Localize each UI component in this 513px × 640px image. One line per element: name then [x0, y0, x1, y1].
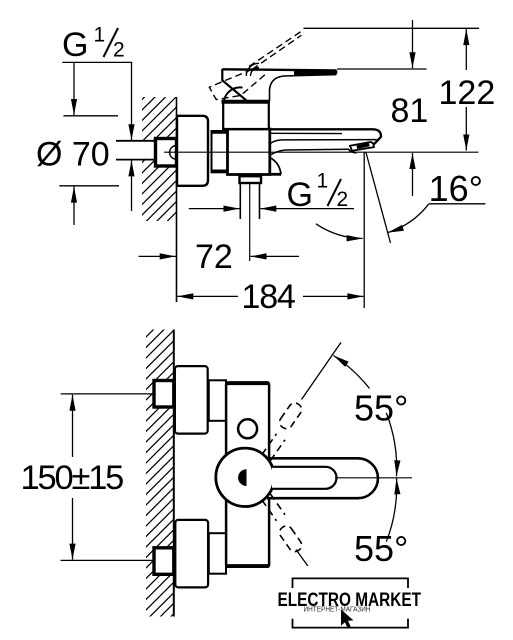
55deg slant line lower: [296, 550, 341, 613]
lever heel arcs: [246, 63, 259, 76]
dashed lever -55 (lower): [262, 494, 304, 554]
lower union nut (front): [154, 548, 174, 575]
logo top bracket: [293, 578, 409, 588]
spout aerator tip: [349, 142, 374, 153]
svg-text:122: 122: [439, 74, 496, 112]
svg-text:72: 72: [195, 238, 233, 276]
knob center dark mark: [238, 469, 246, 486]
dim 150±15: [21, 394, 155, 561]
wall face line (top view): [176, 97, 178, 302]
temperature ring (small circle): [238, 419, 257, 438]
dim 55 upper: [334, 356, 409, 477]
outlet centerline: [249, 183, 251, 261]
neck under lever: [222, 102, 270, 130]
bottom outlet flange: [240, 176, 262, 183]
svg-text:55°: 55°: [354, 528, 408, 569]
dim 55 lower: [354, 478, 408, 569]
wall hatching (bottom view): [146, 330, 174, 617]
dim Ø70: [36, 62, 119, 225]
inlet pipe through wall: [116, 141, 157, 160]
spout vertical extension line: [363, 153, 365, 309]
dashed lever +55 (upper): [262, 401, 304, 461]
wall face line (bottom view): [173, 330, 175, 617]
logo bottom bracket: [293, 619, 409, 628]
svg-text:184: 184: [242, 278, 295, 316]
upper union nut (front): [154, 381, 174, 408]
upper flange (front): [175, 366, 208, 434]
svg-text:55°: 55°: [354, 388, 408, 429]
dim 184: [177, 278, 363, 316]
lever centerline (front): [335, 477, 412, 479]
bottom outlet pipe: [239, 183, 241, 219]
svg-text:1: 1: [317, 169, 329, 192]
svg-text:G: G: [62, 26, 88, 64]
main horizontal centerline: [164, 151, 479, 153]
dim arrows from G1/2 label to pipe: [131, 62, 133, 140]
lever knob circle: [216, 448, 274, 506]
dim 122 top extension line: [304, 27, 480, 29]
wall hatching (top view): [142, 97, 177, 221]
valve body (front): [226, 382, 269, 566]
svg-text:150±15: 150±15: [21, 459, 124, 497]
dim G1/2 (top-left label): [62, 24, 132, 65]
lower flange (front): [175, 520, 208, 588]
55deg slant line upper: [302, 342, 342, 399]
dim G1/2 (bottom outlet): [189, 169, 354, 214]
dashed lever (raised position): [209, 31, 302, 100]
lever top extension line: [337, 68, 427, 70]
svg-text:Ø 70: Ø 70: [36, 135, 110, 173]
wall flange (escutcheon, side view): [177, 116, 208, 186]
dim 122: [439, 29, 496, 150]
wall union nut: [156, 139, 177, 167]
lever inner handle (front): [272, 467, 337, 489]
S-union body (side view): [211, 131, 229, 172]
body bottom edge extension: [270, 173, 281, 176]
logo cursor icon: [341, 610, 353, 628]
lever outer silhouette (front): [267, 458, 378, 498]
valve body (side view): [228, 129, 270, 175]
logo background box: [287, 566, 413, 634]
lower S-union (front): [209, 533, 226, 574]
svg-text:2: 2: [113, 39, 125, 62]
lever handle (rest position): [222, 69, 337, 102]
svg-text:2: 2: [337, 188, 349, 211]
svg-text:ИНТЕРНЕТ-МАГАЗИН: ИНТЕРНЕТ-МАГАЗИН: [304, 605, 371, 614]
dim 16deg: [316, 168, 486, 239]
dim 81: [391, 20, 429, 196]
16 degree slant line: [366, 153, 391, 244]
svg-text:1: 1: [94, 24, 106, 47]
spout (side view): [270, 129, 381, 174]
svg-text:81: 81: [391, 92, 429, 130]
svg-text:16°: 16°: [429, 168, 483, 209]
upper S-union (front): [209, 380, 226, 421]
dim 72: [139, 238, 300, 276]
